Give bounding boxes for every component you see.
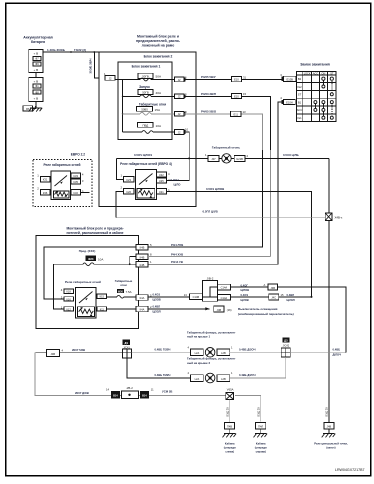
fusible link F7 bbox=[33, 56, 41, 60]
wire splice to lamp1 bbox=[132, 352, 191, 354]
svg-text:Выключатель освещения: Выключатель освещения bbox=[238, 307, 278, 311]
svg-text:Е10: Е10 bbox=[234, 95, 239, 99]
relay K1 coil with resistor bbox=[54, 191, 70, 198]
connector cab box1 bbox=[136, 244, 148, 250]
svg-text:(спереди: (спереди bbox=[224, 446, 236, 450]
relay K2 arm arrow bbox=[145, 180, 148, 182]
svg-text:1: 1 bbox=[231, 371, 233, 375]
svg-text:Ф9: Ф9 bbox=[35, 62, 39, 66]
svg-text:0.4ВЛ: 0.4ВЛ bbox=[287, 293, 295, 297]
roof lamp1 bulb bbox=[205, 348, 215, 358]
wire K2 pinC out bbox=[167, 191, 312, 297]
svg-text:К23: К23 bbox=[126, 178, 131, 182]
svg-text:11: 11 bbox=[151, 387, 154, 391]
wire box2 jog bbox=[130, 257, 136, 265]
wire J2 to bus bbox=[115, 79, 122, 81]
splice V65A bbox=[226, 393, 234, 400]
fuse F23 label box bbox=[86, 256, 97, 261]
fusible link F9 bbox=[33, 62, 41, 66]
wire branch down to J2 bbox=[94, 52, 105, 78]
svg-text:справа): справа) bbox=[256, 450, 266, 454]
connector J2 block input bbox=[105, 76, 115, 81]
svg-text:Ц/ЛОВ: Ц/ЛОВ bbox=[241, 288, 250, 292]
svg-text:1: 1 bbox=[205, 153, 207, 157]
wire box4 to JB2 bbox=[148, 296, 189, 298]
svg-text:АСС: АСС bbox=[297, 108, 303, 112]
svg-text:Е10Н: Е10Н bbox=[286, 100, 293, 104]
connector E10N bbox=[282, 99, 296, 104]
svg-text:Г4/22 (2): Г4/22 (2) bbox=[74, 48, 86, 52]
svg-text:+ В: + В bbox=[34, 80, 39, 84]
svg-text:0.4ВБ Д/2ОЧ: 0.4ВБ Д/2ОЧ bbox=[239, 348, 256, 352]
connector J4B lower bbox=[46, 350, 59, 357]
svg-text:Реле габаритных огней: Реле габаритных огней bbox=[65, 280, 101, 284]
relay K2 pin A bbox=[157, 172, 167, 177]
relay K3 pin rB bbox=[97, 307, 106, 312]
wire row4 cont bbox=[153, 131, 175, 133]
svg-text:К4В: К4В bbox=[140, 263, 145, 267]
svg-text:4: 4 bbox=[62, 349, 64, 353]
relay K3 pin r1 bbox=[64, 289, 74, 294]
svg-text:А: А bbox=[264, 283, 266, 287]
relay K1 switch arm bbox=[55, 176, 68, 187]
inline connector row2 bbox=[231, 93, 241, 98]
relay K2 contact box bbox=[136, 169, 157, 199]
connector cab box4 bbox=[136, 295, 148, 301]
svg-text:3: 3 bbox=[82, 179, 84, 183]
svg-text:J/В-2: J/В-2 bbox=[126, 386, 133, 390]
svg-text:5: 5 bbox=[82, 190, 84, 194]
junction bus row3 bbox=[122, 113, 124, 115]
wire parking lamp feed bbox=[116, 157, 329, 159]
wire row2 cont bbox=[151, 95, 174, 97]
JB2 block bbox=[203, 281, 218, 302]
svg-text:LOCK: LOCK bbox=[304, 72, 311, 75]
cab fuse block outline bbox=[36, 236, 139, 329]
relay K2 coil with resistor bbox=[137, 189, 155, 199]
relay K1 pin 1 bbox=[40, 177, 50, 182]
svg-text:Реле центральной точки,: Реле центральной точки, bbox=[314, 442, 348, 446]
svg-text:14: 14 bbox=[106, 387, 109, 391]
svg-text:10А: 10А bbox=[98, 257, 103, 261]
relay K1 arm arrow bbox=[60, 182, 63, 184]
wire box5 to light switch arrow bbox=[148, 308, 209, 310]
svg-text:Ц/ЛО: Ц/ЛО bbox=[174, 182, 182, 186]
svg-text:К4А: К4А bbox=[140, 296, 145, 300]
inline connector J4C bbox=[269, 294, 279, 300]
ground frame bbox=[322, 434, 336, 438]
relay K3 arm arrow bbox=[85, 298, 88, 300]
fuse F23 element bbox=[83, 263, 94, 266]
splice DZ1 id box bbox=[122, 339, 130, 345]
wire battery box link bbox=[35, 72, 37, 77]
wire bottom-left feed bbox=[35, 352, 122, 354]
wire ground3 stub bbox=[328, 429, 330, 434]
fuse F30 element bbox=[117, 295, 124, 298]
svg-text:Ц/2ОВ: Ц/2ОВ bbox=[241, 298, 249, 302]
svg-text:ДЗ: ДЗ bbox=[284, 338, 288, 342]
svg-text:0.4ВЛ: 0.4ВЛ bbox=[153, 304, 161, 308]
svg-text:Монтажный блок реле и: Монтажный блок реле и bbox=[137, 34, 179, 38]
svg-text:J/С42: J/С42 bbox=[283, 344, 290, 347]
svg-text:Р4/65 5В/У: Р4/65 5В/У bbox=[201, 75, 216, 79]
svg-text:0.4ОЗ: 0.4ОЗ bbox=[153, 292, 161, 296]
wire relay rA to box4 bbox=[107, 296, 117, 298]
wire W1 box1 to relay pin2 bbox=[44, 247, 136, 299]
main fuse block title bbox=[136, 34, 181, 47]
wire to ground2 bbox=[235, 396, 261, 422]
svg-text:50В5: 50В5 bbox=[141, 107, 148, 111]
junction battery ground bbox=[35, 106, 37, 108]
connector cab box2 bbox=[136, 254, 148, 260]
svg-text:50ГВ: 50ГВ bbox=[142, 74, 149, 78]
svg-text:+ В: + В bbox=[34, 52, 39, 56]
svg-text:J/В-2: J/В-2 bbox=[207, 276, 214, 280]
switch row labels bbox=[297, 77, 303, 120]
svg-text:(16): (16) bbox=[227, 308, 232, 312]
connector P4B ground1 bbox=[225, 422, 235, 429]
svg-text:К31: К31 bbox=[43, 178, 48, 182]
wire ground1 stub bbox=[229, 429, 231, 434]
wire K2 pin1 to lamp net bbox=[116, 158, 123, 179]
svg-text:П4Л: П4Л bbox=[258, 425, 263, 429]
fuse SBF3 label box bbox=[137, 107, 153, 112]
inline connector J4B top bbox=[268, 284, 278, 290]
svg-text:0.4ВБ Д/2ОЧ: 0.4ВБ Д/2ОЧ bbox=[239, 373, 256, 377]
svg-text:+ В: + В bbox=[34, 97, 39, 101]
svg-text:L2А: L2А bbox=[195, 351, 200, 355]
svg-text:Блок зажигания 1: Блок зажигания 1 bbox=[132, 64, 161, 68]
ground bus wire bbox=[116, 217, 325, 219]
svg-text:К16: К16 bbox=[66, 298, 71, 301]
wire K1 pin5 stub bbox=[80, 191, 89, 193]
connector B14B bbox=[111, 391, 120, 399]
label light switch bbox=[238, 307, 294, 316]
svg-text:50ГВ: 50ГВ bbox=[142, 91, 149, 95]
svg-text:С14В: С14В bbox=[193, 295, 200, 299]
wire JB2 top out to roof lamps bbox=[231, 287, 347, 353]
svg-text:ON: ON bbox=[322, 72, 326, 75]
svg-text:IG1: IG1 bbox=[297, 116, 302, 120]
svg-text:ST: ST bbox=[298, 93, 302, 97]
svg-text:J4С: J4С bbox=[271, 296, 276, 300]
wire K1 pin2 stub bbox=[50, 191, 51, 193]
junction dot battery wire bbox=[70, 51, 72, 53]
svg-text:(спереди: (спереди bbox=[255, 446, 267, 450]
battery upper box bbox=[29, 49, 43, 72]
svg-text:Ф23: Ф23 bbox=[88, 257, 94, 261]
fuse F30 label box bbox=[117, 289, 124, 294]
fuse F4 element bbox=[142, 131, 153, 134]
connector row4 bbox=[175, 130, 186, 135]
svg-text:J4В: J4В bbox=[50, 352, 55, 356]
cab fuse block title bbox=[66, 227, 123, 236]
svg-text:4: 4 bbox=[188, 345, 190, 349]
svg-text:L2В: L2В bbox=[221, 377, 226, 381]
fuse SBF1 label box bbox=[138, 73, 153, 78]
svg-text:нителей, расположенный в кабин: нителей, расположенный в кабине bbox=[66, 231, 123, 235]
svg-text:К33: К33 bbox=[73, 174, 78, 178]
svg-text:30Э/Б 3В/Ч: 30Э/Б 3В/Ч bbox=[89, 58, 93, 73]
svg-text:ПВД: ПВД bbox=[142, 123, 148, 127]
svg-text:К11: К11 bbox=[100, 308, 105, 311]
svg-text:ЕВРО 2.2: ЕВРО 2.2 bbox=[71, 152, 86, 156]
svg-text:2К07 5/2В: 2К07 5/2В bbox=[72, 348, 85, 352]
svg-text:слева): слева) bbox=[225, 450, 234, 454]
relay K1 pin 4 bbox=[71, 173, 80, 178]
connector P4L ground2 bbox=[256, 422, 266, 429]
svg-text:К26: К26 bbox=[126, 190, 131, 194]
connector cab box5 bbox=[136, 306, 148, 312]
wire ground2 stub bbox=[260, 429, 262, 434]
connector row1 bbox=[175, 77, 186, 82]
connector row3 bbox=[175, 111, 186, 116]
svg-text:Е11: Е11 bbox=[233, 113, 238, 117]
svg-text:К18: К18 bbox=[66, 291, 71, 294]
connector row2 bbox=[175, 94, 186, 99]
svg-text:ОЗ/Д 2В: ОЗ/Д 2В bbox=[226, 407, 229, 417]
roof lamp1 connector left bbox=[191, 349, 204, 356]
ground cab right bbox=[254, 434, 268, 438]
svg-text:Х4В-х: Х4В-х bbox=[335, 216, 343, 220]
svg-text:10: 10 bbox=[185, 127, 189, 131]
svg-text:Ф8: Ф8 bbox=[35, 90, 39, 94]
svg-text:1: 1 bbox=[37, 173, 39, 177]
svg-text:Р4/4 ХУВ: Р4/4 ХУВ bbox=[171, 253, 183, 257]
relay K3 contact box bbox=[76, 288, 97, 319]
junction dot branch bbox=[93, 51, 95, 53]
svg-text:В14: В14 bbox=[142, 395, 147, 398]
svg-text:Р4/14 УВ: Р4/14 УВ bbox=[171, 260, 183, 264]
svg-text:4: 4 bbox=[188, 371, 190, 375]
svg-text:Ф1: Ф1 bbox=[35, 84, 39, 88]
wire row4 down to relay bbox=[167, 132, 190, 181]
svg-text:L2В: L2В bbox=[221, 351, 226, 355]
junction bus row2 bbox=[122, 96, 124, 98]
battery GB1 label bbox=[23, 36, 52, 45]
switch contact links bbox=[315, 79, 331, 118]
relay K2 pin C bbox=[157, 189, 167, 194]
svg-text:LRW04GХ7217В7: LRW04GХ7217В7 bbox=[335, 468, 365, 472]
connector JB2 out top bbox=[217, 284, 230, 290]
svg-text:40А: 40А bbox=[156, 91, 162, 95]
label ground3 bbox=[314, 442, 348, 450]
JB2 internal link bbox=[203, 287, 218, 297]
connector cab box3 bbox=[136, 262, 148, 268]
wire to ground1 bbox=[229, 400, 231, 422]
svg-text:В1: В1 bbox=[298, 100, 302, 104]
svg-text:Д/ЛОЧ: Д/ЛОЧ bbox=[333, 352, 342, 356]
svg-text:G21В: G21В bbox=[236, 157, 243, 161]
svg-text:0.4ВБ: 0.4ВБ bbox=[333, 348, 341, 352]
roof lamp2 bulb bbox=[205, 373, 215, 383]
svg-text:0.4ВБ Г/2ВЧ: 0.4ВБ Г/2ВЧ bbox=[155, 348, 171, 352]
wire row1 out bbox=[184, 78, 284, 80]
svg-text:Р4/65 5В/О: Р4/65 5В/О bbox=[201, 110, 217, 114]
label wire jb2 top bbox=[241, 283, 250, 292]
roof lamp2 label bbox=[187, 357, 236, 365]
svg-text:1: 1 bbox=[231, 345, 233, 349]
svg-text:К12: К12 bbox=[66, 308, 71, 311]
indicator lamp HL1 bbox=[222, 154, 231, 163]
svg-text:ОЗ/Д 2В: ОЗ/Д 2В bbox=[257, 407, 260, 417]
svg-text:ACC: ACC bbox=[313, 72, 318, 75]
svg-text:К15: К15 bbox=[100, 296, 105, 299]
svg-text:батарея: батарея bbox=[31, 40, 45, 44]
inline connector row1 bbox=[231, 77, 241, 82]
wire switch output down bbox=[148, 102, 283, 264]
svg-text:13: 13 bbox=[243, 110, 247, 114]
roof lamp1 label bbox=[187, 330, 236, 338]
relay K3 switch arm bbox=[79, 292, 93, 304]
svg-text:J4В: J4В bbox=[327, 425, 332, 429]
label feed riser bbox=[333, 348, 342, 357]
svg-text:ОЗ/Д 2В: ОЗ/Д 2В bbox=[326, 407, 329, 417]
relay K3 coil with resistor bbox=[78, 307, 95, 317]
svg-text:1.4ОБ 30Э/Б: 1.4ОБ 30Э/Б bbox=[47, 48, 66, 52]
svg-text:4: 4 bbox=[82, 173, 84, 177]
wire row1 cont bbox=[151, 79, 174, 81]
relay K1 pin 3 bbox=[71, 179, 80, 184]
svg-text:2: 2 bbox=[247, 154, 249, 158]
wire row3 bbox=[123, 113, 140, 115]
svg-text:В2: В2 bbox=[298, 77, 302, 81]
svg-text:К32: К32 bbox=[73, 191, 78, 195]
wire row1 bbox=[123, 79, 140, 81]
junction row4 lamp bbox=[188, 157, 190, 159]
svg-text:1: 1 bbox=[150, 260, 152, 264]
relay K1 pin 2 bbox=[40, 190, 50, 196]
splice DZ2 id box bbox=[282, 337, 289, 342]
svg-text:Габаритный огонь: Габаритный огонь bbox=[212, 145, 241, 149]
fuse SBF2 element bbox=[140, 95, 151, 98]
svg-text:К21: К21 bbox=[159, 190, 164, 194]
svg-text:+ В: + В bbox=[34, 68, 39, 72]
svg-text:5: 5 bbox=[150, 243, 152, 247]
relay K1 pin 5 bbox=[71, 190, 80, 196]
ignition switch table bbox=[296, 72, 336, 122]
roof lamp2 connector left bbox=[191, 375, 204, 382]
svg-text:Ц/2ОЛ: Ц/2ОЛ bbox=[287, 298, 295, 302]
relay K2 pin B bbox=[157, 178, 167, 183]
svg-text:Ц/2ОВ: Ц/2ОВ bbox=[153, 298, 161, 302]
wire battery feed top bbox=[43, 51, 99, 53]
svg-text:L2А: L2А bbox=[195, 377, 200, 381]
svg-text:0.5ОЧ ЦЛ/ОЗ: 0.5ОЧ ЦЛ/ОЗ bbox=[134, 153, 152, 157]
svg-text:13: 13 bbox=[184, 293, 187, 297]
svg-text:Ф7: Ф7 bbox=[35, 57, 39, 61]
svg-text:15А: 15А bbox=[155, 108, 161, 112]
connector B14A bbox=[140, 391, 149, 399]
label wire jb2 bottom right bbox=[287, 293, 295, 302]
svg-text:В14: В14 bbox=[113, 395, 118, 398]
wire junction2 to feed riser bbox=[290, 352, 346, 354]
fusible link F8 bbox=[33, 90, 41, 94]
connector E10B bbox=[282, 76, 296, 81]
svg-text:0.4ВБ Г/2ВЧ: 0.4ВБ Г/2ВЧ bbox=[155, 373, 171, 377]
svg-text:Ф30: Ф30 bbox=[118, 289, 124, 293]
connector F6 bbox=[23, 106, 32, 111]
wire relay rB to box5 bbox=[107, 308, 136, 310]
svg-text:4: 4 bbox=[280, 96, 282, 100]
wire row4 bbox=[123, 131, 142, 133]
svg-text:ДЗ: ДЗ bbox=[124, 341, 128, 345]
wire W2 box3 through fuse to relay pin3 bbox=[94, 263, 136, 265]
svg-text:50А: 50А bbox=[156, 75, 162, 79]
svg-text:J07: J07 bbox=[211, 157, 216, 161]
svg-text:огни: огни bbox=[120, 283, 127, 287]
svg-text:Р4/63 3В/П: Р4/63 3В/П bbox=[201, 92, 216, 96]
svg-text:предохранителей, распо-: предохранителей, распо- bbox=[136, 39, 181, 43]
wire B box2 to switch vertical bbox=[148, 256, 270, 258]
switch contact circles bbox=[314, 77, 334, 119]
svg-text:Аккумуляторная: Аккумуляторная bbox=[23, 36, 52, 40]
label ground2 bbox=[255, 442, 267, 454]
fuse F4 label box bbox=[137, 123, 153, 128]
svg-text:Монтажный блок реле и предохра: Монтажный блок реле и предохра- bbox=[66, 227, 123, 231]
wire ground trunk down bbox=[328, 221, 330, 432]
fuse SBF3 element bbox=[140, 112, 151, 115]
wire ground return gray bbox=[35, 353, 226, 396]
ground battery bbox=[29, 108, 43, 112]
svg-text:УСМ 2В: УСМ 2В bbox=[162, 389, 172, 393]
connector JB2 bottom middle bbox=[122, 391, 139, 399]
svg-text:Блок зажигания 2: Блок зажигания 2 bbox=[144, 55, 173, 59]
splice junction 1 bbox=[122, 349, 131, 358]
svg-text:С14А: С14А bbox=[221, 296, 228, 300]
svg-text:IG2: IG2 bbox=[297, 85, 302, 89]
svg-text:0.5ХХ Ц/ЛБ: 0.5ХХ Ц/ЛБ bbox=[283, 153, 299, 157]
label ground1 bbox=[224, 442, 236, 454]
splice junction 2 bbox=[281, 348, 290, 357]
svg-text:Е10: Е10 bbox=[234, 78, 239, 82]
wire K2 pin2 to ground bus bbox=[116, 191, 124, 217]
svg-text:С14А: С14А bbox=[221, 286, 228, 290]
connector J4B switch bbox=[214, 306, 225, 312]
svg-text:0.5ОЗ Ц/ЛОВ: 0.5ОЗ Ц/ЛОВ bbox=[206, 187, 224, 191]
svg-text:К35: К35 bbox=[73, 180, 78, 184]
label wire box4 bbox=[153, 292, 161, 301]
svg-text:Ц/2ОЛ: Ц/2ОЛ bbox=[153, 310, 161, 314]
svg-text:К4В: К4В bbox=[140, 246, 145, 250]
connector C14B bbox=[189, 294, 202, 300]
connector J4B ground3 bbox=[324, 422, 334, 429]
svg-text:0.5ГЛ Ц/УВ: 0.5ГЛ Ц/УВ bbox=[203, 209, 218, 213]
wire battery to ground bbox=[35, 102, 37, 108]
connector JB2 out bottom bbox=[217, 294, 230, 300]
svg-text:Реле габаритных огней (ЕВРО 4): Реле габаритных огней (ЕВРО 4) bbox=[120, 162, 172, 166]
svg-text:0.4ОГ: 0.4ОГ bbox=[241, 283, 249, 287]
svg-text:8: 8 bbox=[150, 253, 152, 257]
wire lamp1 to junction bbox=[230, 352, 282, 354]
svg-text:Замок зажигания: Замок зажигания bbox=[300, 63, 330, 67]
svg-text:3: 3 bbox=[280, 73, 282, 77]
wire row2 out to corner bbox=[184, 96, 271, 150]
relay K3 pin r2 bbox=[64, 297, 74, 302]
svg-text:15: 15 bbox=[281, 293, 284, 297]
label wire box5 bbox=[153, 304, 161, 313]
ignition block 2 inner box bbox=[118, 62, 172, 140]
svg-text:0.4ОЧ: 0.4ОЧ bbox=[171, 178, 179, 182]
svg-text:V65А: V65А bbox=[227, 388, 234, 392]
wire row3 cont bbox=[151, 113, 174, 115]
wire JB2 bottom out bbox=[231, 296, 312, 298]
svg-text:J4В: J4В bbox=[217, 308, 222, 312]
svg-text:К22: К22 bbox=[159, 173, 164, 177]
svg-text:К4А: К4А bbox=[140, 308, 145, 312]
svg-text:0.4ОЗ: 0.4ОЗ bbox=[241, 293, 249, 297]
svg-text:Реле габаритных огней: Реле габаритных огней bbox=[43, 163, 80, 167]
